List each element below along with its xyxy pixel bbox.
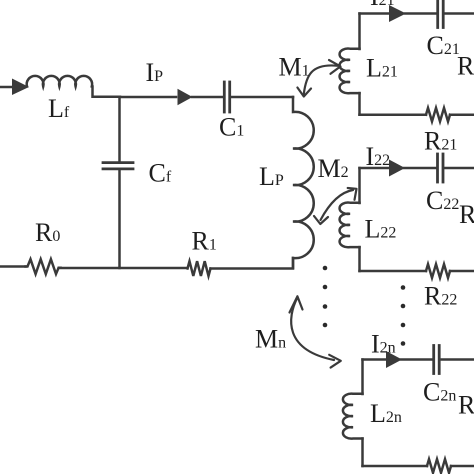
svg-text:C21: C21	[427, 31, 460, 60]
coupling arrow M2	[314, 188, 357, 224]
svg-text:Mn: Mn	[255, 324, 286, 353]
loop n top wire	[363, 358, 387, 361]
capacitor C21	[438, 1, 444, 28]
svg-text:Lf: Lf	[48, 94, 70, 123]
wire RLn right	[451, 465, 474, 468]
svg-text:L2n: L2n	[370, 399, 402, 428]
loop 1 bottom wire	[360, 113, 427, 116]
wire to C2n	[401, 358, 433, 361]
current arrow IP	[178, 89, 193, 106]
svg-text:C22: C22	[426, 186, 459, 215]
dots column left	[323, 266, 328, 328]
wire RL2 right	[450, 270, 474, 273]
inductor Lf	[27, 76, 92, 87]
svg-text:R21: R21	[424, 127, 457, 156]
wire input left	[0, 86, 13, 89]
inductor LP	[293, 97, 314, 268]
loop 2 bottom wire	[360, 270, 427, 273]
wire Lf to node A	[93, 87, 121, 97]
inductor L22	[340, 203, 360, 248]
resistor RL1	[426, 108, 450, 122]
resistor RLn	[427, 459, 451, 473]
input arrow	[12, 79, 29, 96]
svg-text:C1: C1	[219, 113, 244, 142]
wire L2n to bottom	[361, 439, 364, 467]
wire C2n right	[442, 358, 474, 361]
svg-text:R: R	[458, 391, 474, 420]
capacitor C1	[224, 82, 229, 112]
wire bottom left	[0, 265, 26, 268]
svg-text:M1: M1	[279, 53, 310, 82]
wire node A down to Cf	[118, 97, 121, 161]
coupling arrow M1	[297, 60, 340, 97]
resistor R1	[188, 261, 211, 276]
svg-text:Cf: Cf	[149, 158, 172, 187]
loop n left vertical	[361, 360, 364, 395]
svg-text:R1: R1	[192, 227, 217, 256]
svg-text:LP: LP	[259, 162, 284, 191]
loop n bottom wire	[363, 465, 428, 468]
loop 2 left vertical	[358, 168, 361, 203]
wire to C22	[404, 167, 436, 170]
loop 2 top wire	[360, 167, 390, 170]
current arrow I22	[389, 160, 405, 177]
loop 1 top wire	[360, 12, 390, 15]
current arrow I21	[389, 5, 406, 22]
capacitor Cf	[103, 163, 133, 169]
svg-text:R0: R0	[35, 218, 60, 247]
svg-text:L22: L22	[365, 215, 397, 244]
node B to R1	[120, 267, 188, 270]
svg-text:C2n: C2n	[423, 378, 456, 407]
capacitor C2n	[434, 346, 440, 374]
wire R0 to node B	[59, 267, 120, 270]
wire L22 to bottom	[358, 247, 361, 271]
svg-text:I2n: I2n	[371, 330, 396, 359]
resistor R0	[26, 259, 61, 274]
wire C21 right	[445, 12, 474, 15]
capacitor C22	[438, 154, 444, 182]
svg-text:I22: I22	[366, 142, 391, 171]
resistor RL2	[426, 264, 450, 278]
wire C22 right	[445, 167, 474, 170]
wire RL1 right	[450, 113, 474, 116]
current arrow I2n	[386, 351, 402, 368]
wire Cf to bottom	[118, 171, 121, 267]
svg-text:M2: M2	[318, 154, 349, 183]
loop 1 left vertical	[358, 14, 361, 50]
inductor L21	[340, 49, 360, 94]
wire R1 to LP bottom	[211, 258, 294, 269]
svg-text:R22: R22	[424, 282, 457, 311]
node A junction	[120, 96, 176, 99]
svg-text:IP: IP	[146, 58, 164, 87]
inductor L2n	[343, 394, 363, 439]
dots column right	[401, 285, 406, 346]
svg-text:L21: L21	[366, 54, 398, 83]
wire C1 to LP top	[232, 96, 294, 99]
svg-text:R: R	[459, 200, 474, 229]
wire to C21	[405, 12, 436, 15]
wire L21 to bottom	[358, 93, 361, 115]
coupling arrow Mn	[290, 296, 341, 367]
svg-text:R: R	[457, 52, 474, 81]
wire arrow to C1	[192, 96, 223, 99]
